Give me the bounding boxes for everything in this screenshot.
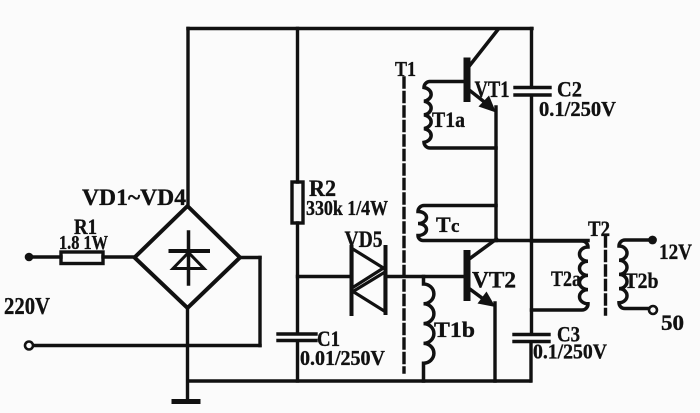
svg-text:0.1/250V: 0.1/250V (539, 97, 616, 121)
svg-text:330k 1/4W: 330k 1/4W (306, 196, 388, 220)
svg-text:1.8 1W: 1.8 1W (59, 232, 108, 254)
svg-text:VT1: VT1 (475, 77, 510, 102)
svg-text:VT2: VT2 (472, 268, 516, 293)
svg-text:50: 50 (661, 310, 684, 335)
svg-text:12V: 12V (659, 239, 692, 264)
svg-text:220V: 220V (4, 294, 51, 320)
svg-text:c: c (451, 216, 459, 237)
svg-text:T1a: T1a (432, 107, 465, 132)
svg-text:T1b: T1b (434, 317, 475, 342)
svg-text:T2a: T2a (551, 266, 581, 291)
svg-text:0.01/250V: 0.01/250V (300, 346, 385, 370)
svg-text:T1: T1 (395, 57, 416, 81)
svg-text:VD5: VD5 (345, 227, 383, 252)
svg-text:T2b: T2b (625, 268, 659, 293)
svg-text:VD1~VD4: VD1~VD4 (82, 185, 187, 210)
svg-text:T2: T2 (588, 216, 610, 241)
svg-text:0.1/250V: 0.1/250V (533, 340, 607, 364)
svg-text:T: T (436, 212, 451, 237)
